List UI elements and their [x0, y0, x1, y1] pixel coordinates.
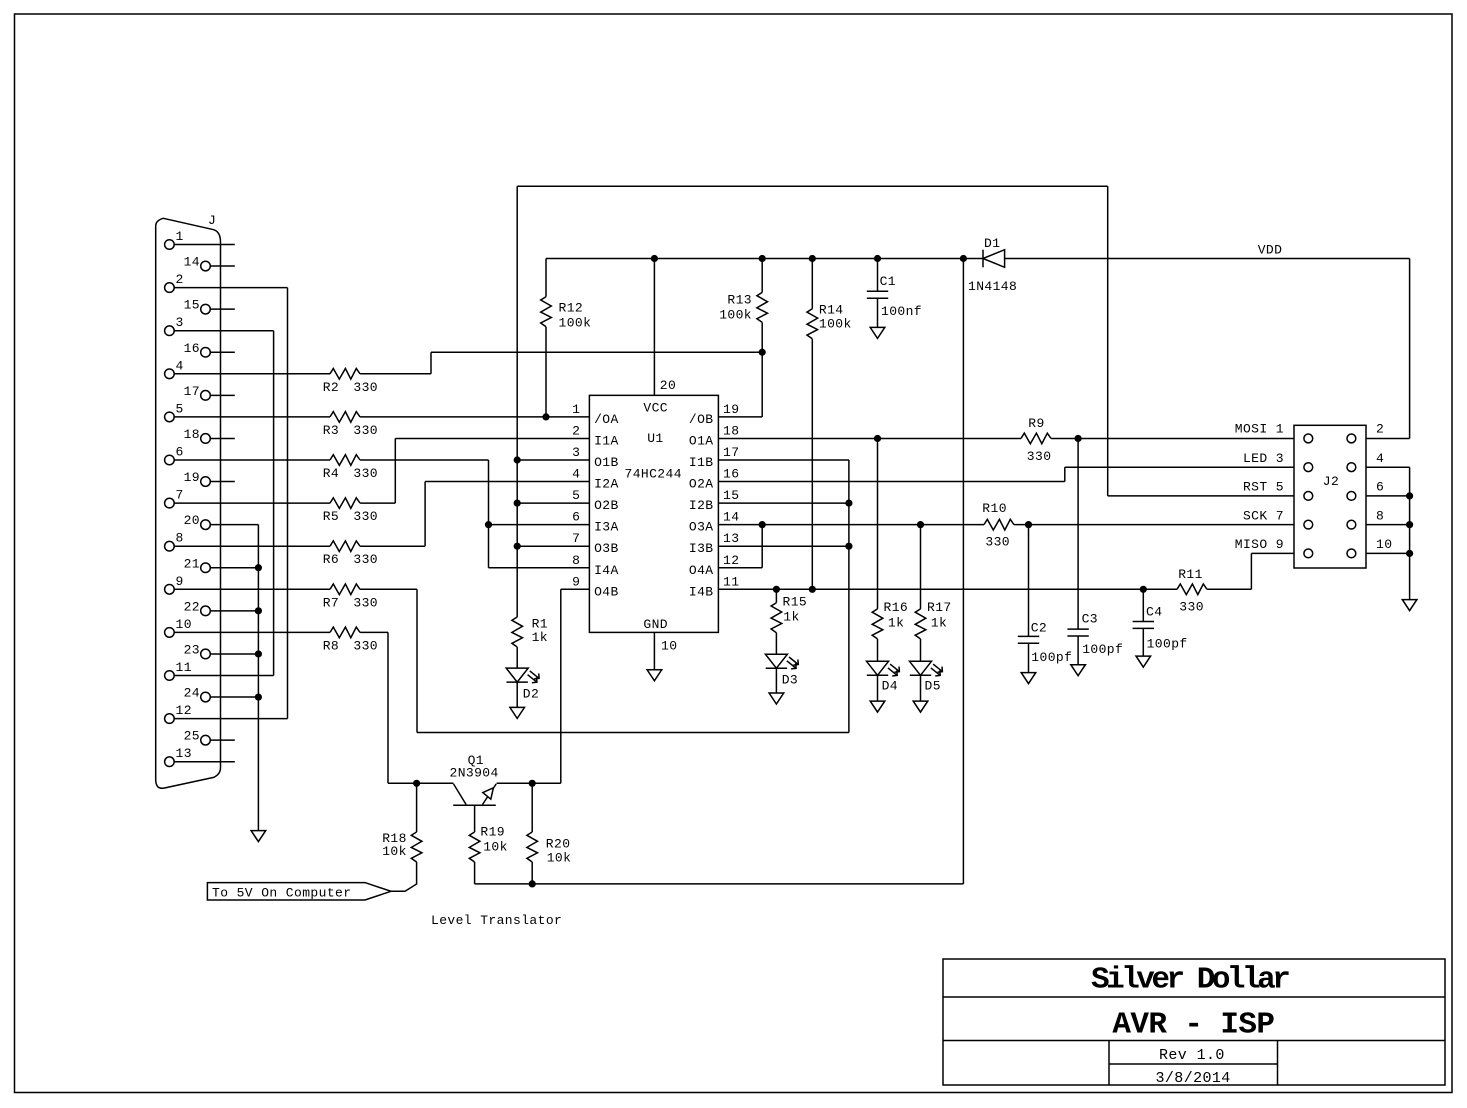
svg-text:R8: R8: [323, 638, 339, 653]
wire J-pin2 row: [174, 287, 287, 289]
wire J-pin10 row: [360, 631, 388, 633]
resistor R5: [330, 498, 360, 509]
resistor R18: [411, 832, 422, 862]
wire C1/R16 column: [877, 438, 879, 608]
svg-text:4: 4: [176, 358, 184, 373]
resistor R7: [330, 584, 360, 595]
svg-text:J: J: [208, 213, 216, 228]
wire J-pin8 row: [360, 545, 425, 547]
wire R13/pin19 lead: [761, 323, 763, 417]
junction j29: [1406, 521, 1413, 528]
svg-text:11: 11: [176, 660, 192, 675]
ground C3-gnd: [1071, 665, 1086, 676]
svg-text:330: 330: [1027, 449, 1052, 464]
svg-text:I3A: I3A: [594, 520, 619, 535]
junction j11: [255, 564, 262, 571]
ground D3-gnd: [769, 693, 784, 704]
ground C4-gnd: [1136, 656, 1151, 667]
wire J-pin9 row: [360, 588, 417, 590]
wire net LED: [718, 481, 1064, 483]
title block: [943, 959, 1445, 1085]
svg-text:5: 5: [572, 488, 580, 503]
LED D2: [506, 668, 539, 683]
wire J-pin13 row: [174, 761, 235, 763]
svg-text:10k: 10k: [382, 844, 407, 859]
wire J ground bus: [257, 525, 259, 831]
wire net RST to J2-5: [1366, 495, 1410, 497]
junction j18: [874, 435, 881, 442]
svg-text:3/8/2014: 3/8/2014: [1156, 1070, 1231, 1087]
op-amp U1 74HC244 buffer box: [589, 395, 718, 632]
resistor R12: [541, 297, 552, 327]
svg-text:330: 330: [353, 380, 378, 395]
svg-text:10: 10: [176, 617, 192, 632]
wire J-pin4 row: [360, 373, 431, 375]
wire R17 lead: [920, 639, 922, 661]
connector J pin 22: [201, 606, 211, 616]
wire J-pin10 row: [174, 631, 330, 633]
connector J2 pin 5: [1304, 492, 1313, 501]
wire R13/pin19 lead: [761, 525, 763, 568]
wire J-pin8 row: [174, 545, 330, 547]
wire C1/R16 column: [877, 298, 879, 327]
svg-text:19: 19: [184, 470, 200, 485]
svg-text:RST 5: RST 5: [1243, 480, 1284, 495]
connector J pin 6: [165, 455, 175, 465]
junction j14: [255, 693, 262, 700]
svg-text:O4A: O4A: [689, 563, 714, 578]
svg-text:20: 20: [660, 378, 676, 393]
connector J2 pin 3: [1304, 463, 1313, 472]
wire R12 lead: [545, 327, 547, 417]
connector J pin 25: [201, 735, 211, 745]
wire net /OA-/OB: [718, 416, 762, 418]
junction j15: [845, 500, 852, 507]
svg-text:24: 24: [184, 686, 200, 701]
wire J-pin16 row: [210, 351, 235, 353]
svg-text:100k: 100k: [719, 308, 752, 323]
junction j22: [1140, 586, 1147, 593]
capacitor C1: [867, 291, 888, 298]
connector J pin 16: [201, 347, 211, 357]
svg-text:20: 20: [184, 513, 200, 528]
svg-text:2: 2: [1376, 422, 1384, 437]
svg-text:16: 16: [723, 467, 739, 482]
svg-text:12: 12: [176, 703, 192, 718]
wire J-pin23 row: [210, 653, 258, 655]
svg-text:I2B: I2B: [689, 498, 714, 513]
connector J pin 5: [165, 412, 175, 422]
wire J-pin14 row: [210, 265, 235, 267]
junction j5: [960, 255, 967, 262]
wire net MOSI: [718, 437, 1021, 439]
wire R15/D3 lead: [775, 668, 777, 693]
svg-text:330: 330: [353, 466, 378, 481]
svg-text:13: 13: [723, 531, 739, 546]
svg-text:1k: 1k: [931, 616, 947, 631]
wire Q1 base lead: [474, 805, 476, 832]
svg-text:R20: R20: [546, 837, 571, 852]
wire net MISO to J2-9: [1251, 552, 1294, 554]
svg-text:U1: U1: [647, 431, 663, 446]
wire C2 lead: [1028, 525, 1030, 637]
wire R2 jog: [430, 352, 432, 374]
svg-text:330: 330: [353, 423, 378, 438]
wire pin3-pin11 tie: [273, 331, 275, 676]
svg-text:15: 15: [723, 488, 739, 503]
wire J2 right bus: [1409, 259, 1411, 439]
wire J-pin7 row: [360, 502, 395, 504]
junction j26: [529, 780, 536, 787]
svg-text:17: 17: [723, 445, 739, 460]
svg-text:MISO 9: MISO 9: [1235, 537, 1284, 552]
wire net MISO: [1207, 588, 1251, 590]
wire J-pin5 row: [360, 416, 589, 418]
wire J-pin8 row: [517, 545, 589, 547]
wire net MOSI: [1051, 437, 1294, 439]
junction j2: [759, 255, 766, 262]
svg-text:4: 4: [572, 467, 580, 482]
resistor R4: [330, 455, 360, 466]
junction j16: [845, 543, 852, 550]
wire C1/R16 column: [877, 259, 879, 292]
wire net LED to J2-3: [1065, 466, 1294, 468]
svg-text:D5: D5: [925, 679, 941, 694]
connector J pin 7: [165, 498, 175, 508]
svg-text:D1: D1: [984, 236, 1000, 251]
svg-text:R7: R7: [323, 595, 339, 610]
svg-text:I1A: I1A: [594, 433, 619, 448]
svg-text:I3B: I3B: [689, 541, 714, 556]
svg-text:1k: 1k: [532, 630, 548, 645]
connector J2 ISP header box: [1294, 425, 1366, 568]
svg-text:12: 12: [723, 553, 739, 568]
wire J-pin17 row: [210, 394, 235, 396]
wire net RST vertical: [516, 682, 518, 707]
wire R7 net vertical: [416, 589, 418, 732]
junction j28: [1406, 492, 1413, 499]
wire J-pin19 row: [425, 481, 589, 483]
svg-text:R4: R4: [323, 466, 339, 481]
svg-text:R2: R2: [323, 380, 339, 395]
connector J2 pin 8: [1347, 520, 1356, 529]
wire R20 lead: [531, 783, 533, 832]
svg-text:13: 13: [176, 746, 192, 761]
wire net D2/I1B: [718, 459, 849, 461]
svg-text:/OA: /OA: [594, 412, 619, 427]
wire J-pin19 row: [210, 481, 235, 483]
junction j0: [542, 413, 549, 420]
LED D3: [765, 654, 798, 669]
svg-text:O3A: O3A: [689, 520, 714, 535]
junction j19: [917, 521, 924, 528]
svg-text:100pf: 100pf: [1031, 650, 1072, 665]
svg-text:SCK 7: SCK 7: [1243, 509, 1284, 524]
svg-text:2: 2: [176, 272, 184, 287]
connector J pin 13: [165, 757, 175, 767]
wire J-pin18 row: [210, 437, 235, 439]
svg-text:330: 330: [353, 638, 378, 653]
connector J2 pin 10: [1347, 549, 1356, 558]
resistor R14: [807, 309, 818, 339]
svg-text:R9: R9: [1028, 416, 1044, 431]
svg-text:5: 5: [176, 401, 184, 416]
net flag To 5V On Computer: [207, 883, 391, 900]
connector J pin 15: [201, 304, 211, 314]
svg-text:7: 7: [572, 531, 580, 546]
svg-text:R5: R5: [323, 509, 339, 524]
resistor R11: [1177, 584, 1207, 595]
resistor R16: [872, 609, 883, 639]
connector J pin 24: [201, 692, 211, 702]
svg-text:VDD: VDD: [1258, 243, 1283, 258]
svg-text:I4A: I4A: [594, 563, 619, 578]
svg-text:6: 6: [572, 510, 580, 525]
svg-text:330: 330: [353, 595, 378, 610]
svg-text:D2: D2: [523, 686, 539, 701]
junction j27: [529, 880, 536, 887]
connector J2 pin 6: [1347, 492, 1356, 501]
svg-text:10: 10: [661, 638, 677, 653]
svg-text:R19: R19: [480, 825, 505, 840]
wire J-pin3 row: [174, 330, 273, 332]
connector J pin 1: [165, 240, 175, 250]
wire net R2-/OB: [431, 351, 762, 353]
wire flag-R18: [391, 862, 417, 891]
connector J pin 14: [201, 261, 211, 271]
svg-text:100k: 100k: [559, 316, 592, 331]
wire R17 lead: [920, 675, 922, 701]
svg-text:C3: C3: [1082, 611, 1098, 626]
wire VCC/VDD rail: [1005, 258, 1410, 260]
wire R20 lead: [531, 862, 533, 884]
svg-text:O1B: O1B: [594, 455, 619, 470]
wire R15/D3 lead: [775, 589, 777, 602]
wire LED jog: [1064, 467, 1066, 481]
wire J-pin1 row: [174, 244, 235, 246]
junction j6: [759, 349, 766, 356]
wire J-pin5 row: [174, 416, 330, 418]
diode D1 1N4148: [983, 250, 1005, 268]
svg-text:O2B: O2B: [594, 498, 619, 513]
wire Q1 base lead: [474, 862, 476, 884]
capacitor C4: [1133, 622, 1154, 629]
svg-text:R17: R17: [927, 600, 952, 615]
svg-text:1k: 1k: [888, 616, 904, 631]
svg-text:GND: GND: [643, 617, 668, 632]
wire R12 lead: [545, 259, 547, 297]
connector J pin 2: [165, 283, 175, 293]
wire J-pin20 row: [489, 524, 590, 526]
svg-text:8: 8: [176, 531, 184, 546]
svg-text:3: 3: [176, 315, 184, 330]
wire J-pin7 row: [517, 502, 589, 504]
wire O4B-to-Q1 vertical: [560, 589, 562, 783]
wire J-pin11 row: [174, 675, 273, 677]
wire J-pin6 row: [517, 459, 589, 461]
wire net MISO: [718, 588, 1177, 590]
wire level-translator rail: [475, 883, 964, 885]
resistor R10: [984, 519, 1014, 530]
svg-text:C1: C1: [880, 274, 896, 289]
svg-text:25: 25: [184, 729, 200, 744]
junction j12: [255, 607, 262, 614]
wire J-pin21 row: [210, 567, 258, 569]
svg-text:C2: C2: [1031, 621, 1047, 636]
resistor R15: [771, 603, 782, 633]
junction j1: [651, 255, 658, 262]
svg-text:O2A: O2A: [689, 477, 714, 492]
wire C4 lead: [1142, 589, 1144, 621]
svg-text:330: 330: [1179, 600, 1204, 615]
svg-text:19: 19: [723, 402, 739, 417]
junction j21: [809, 586, 816, 593]
svg-text:100k: 100k: [819, 316, 852, 331]
wire R4-to-pin6/8 jog: [488, 460, 490, 568]
svg-text:D3: D3: [782, 673, 798, 688]
wire net O3B/I3B: [718, 545, 849, 547]
wire J-pin22 row: [210, 610, 258, 612]
svg-text:21: 21: [184, 556, 200, 571]
svg-text:1: 1: [572, 402, 580, 417]
wire net I4A/O4A: [718, 567, 762, 569]
svg-text:8: 8: [572, 553, 580, 568]
connector J pin 17: [201, 391, 211, 401]
svg-text:J2: J2: [1323, 474, 1339, 489]
svg-text:11: 11: [723, 574, 739, 589]
ground U1-gnd: [647, 670, 662, 681]
junction j30: [1406, 550, 1413, 557]
svg-text:22: 22: [184, 599, 200, 614]
wire J-pin6 row: [360, 459, 488, 461]
connector J2 pin 1: [1304, 434, 1313, 443]
ground C1-gnd: [870, 327, 885, 338]
wire U1 pin20/GND lead: [653, 632, 655, 669]
svg-text:330: 330: [353, 509, 378, 524]
resistor R19: [469, 832, 480, 862]
wire net RST to J2-5: [1108, 495, 1294, 497]
svg-text:6: 6: [176, 445, 184, 460]
svg-text:LED 3: LED 3: [1243, 451, 1284, 466]
svg-text:9: 9: [572, 574, 580, 589]
ground C2-gnd: [1021, 673, 1036, 684]
svg-text:C4: C4: [1146, 605, 1162, 620]
capacitor C3: [1067, 629, 1088, 636]
wire J-pin24 row: [210, 696, 258, 698]
svg-text:R6: R6: [323, 552, 339, 567]
connector J2 pin 2: [1347, 434, 1356, 443]
junction j9: [514, 543, 521, 550]
resistor R13: [757, 292, 768, 322]
connector J pin 12: [165, 714, 175, 724]
svg-text:D4: D4: [882, 679, 898, 694]
svg-text:14: 14: [723, 510, 739, 525]
wire R18 lead: [416, 783, 418, 832]
svg-text:330: 330: [353, 552, 378, 567]
svg-text:2N3904: 2N3904: [450, 766, 499, 781]
wire Q1 collector/emitter row: [497, 782, 561, 784]
svg-text:I2A: I2A: [594, 477, 619, 492]
wire R14 lead: [811, 339, 813, 589]
wire U1 pin20/GND lead: [653, 259, 655, 396]
wire Q1 collector/emitter row: [388, 782, 454, 784]
svg-text:R12: R12: [559, 301, 584, 316]
wire J-pin4 row: [174, 373, 330, 375]
resistor R6: [330, 541, 360, 552]
svg-text:1k: 1k: [783, 609, 799, 624]
junction j20: [773, 586, 780, 593]
svg-text:R3: R3: [323, 423, 339, 438]
junction j24: [1025, 521, 1032, 528]
svg-text:MOSI 1: MOSI 1: [1235, 422, 1284, 437]
wire C3 lead: [1077, 438, 1079, 629]
svg-text:18: 18: [184, 427, 200, 442]
connector J pin 8: [165, 541, 175, 551]
svg-text:16: 16: [184, 341, 200, 356]
junction j7: [514, 456, 521, 463]
wire net RST vertical: [516, 647, 518, 668]
svg-text:R10: R10: [982, 501, 1007, 516]
resistor R8: [330, 627, 360, 638]
svg-text:17: 17: [184, 384, 200, 399]
wire net RST vertical: [516, 186, 518, 617]
svg-text:10: 10: [1376, 537, 1392, 552]
resistor R1: [512, 617, 523, 647]
svg-text:15: 15: [184, 298, 200, 313]
wire J-pin6 row: [174, 459, 330, 461]
svg-text:/OB: /OB: [689, 412, 714, 427]
wire net SCK: [718, 524, 984, 526]
svg-text:2: 2: [572, 423, 580, 438]
resistor R17: [915, 609, 926, 639]
wire C3 lead: [1077, 636, 1079, 665]
wire R5-to-pin2 jog: [394, 438, 396, 503]
svg-text:I1B: I1B: [689, 455, 714, 470]
svg-text:100nf: 100nf: [881, 304, 922, 319]
svg-text:9: 9: [176, 574, 184, 589]
junction j10: [485, 521, 492, 528]
connector J pin 4: [165, 369, 175, 379]
svg-text:14: 14: [184, 255, 200, 270]
capacitor C2: [1018, 636, 1039, 643]
svg-text:I4B: I4B: [689, 584, 714, 599]
svg-text:Level Translator: Level Translator: [431, 913, 562, 928]
wire net RST top loop: [517, 185, 1107, 187]
wire C4 lead: [1142, 629, 1144, 657]
ground J2-gnd: [1402, 600, 1417, 611]
junction j25: [413, 780, 420, 787]
svg-text:18: 18: [723, 423, 739, 438]
wire R8-to-Q1 vertical: [387, 632, 389, 783]
svg-text:74HC244: 74HC244: [625, 466, 682, 481]
svg-text:3: 3: [572, 445, 580, 460]
connector J2 pin 7: [1304, 520, 1313, 529]
wire net MISO: [561, 588, 590, 590]
svg-text:O3B: O3B: [594, 541, 619, 556]
junction j4: [874, 255, 881, 262]
wire J-pin18 row: [395, 437, 589, 439]
svg-text:R11: R11: [1178, 567, 1203, 582]
wire J-pin12 row: [174, 718, 287, 720]
wire pin2-pin12 tie: [287, 288, 289, 719]
svg-text:10k: 10k: [547, 850, 572, 865]
resistor R20: [527, 832, 538, 862]
svg-text:1: 1: [176, 229, 184, 244]
wire MISO jog: [1250, 553, 1252, 589]
connector J pin 10: [165, 628, 175, 638]
wire VCC-to-rail vertical: [962, 259, 964, 884]
LED D5: [910, 661, 943, 676]
